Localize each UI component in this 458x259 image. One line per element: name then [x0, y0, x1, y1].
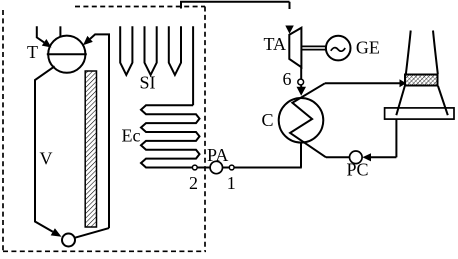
svg-text:T: T — [27, 42, 38, 62]
svg-text:6: 6 — [283, 69, 292, 89]
svg-text:C: C — [262, 110, 274, 130]
svg-text:Ec: Ec — [122, 126, 141, 146]
svg-text:2: 2 — [189, 173, 198, 193]
svg-text:SI: SI — [140, 73, 156, 93]
svg-text:1: 1 — [227, 173, 236, 193]
svg-text:GE: GE — [356, 37, 380, 57]
svg-text:V: V — [40, 149, 53, 169]
svg-text:PA: PA — [207, 145, 228, 165]
svg-text:PC: PC — [347, 160, 369, 180]
svg-text:TA: TA — [264, 34, 287, 54]
